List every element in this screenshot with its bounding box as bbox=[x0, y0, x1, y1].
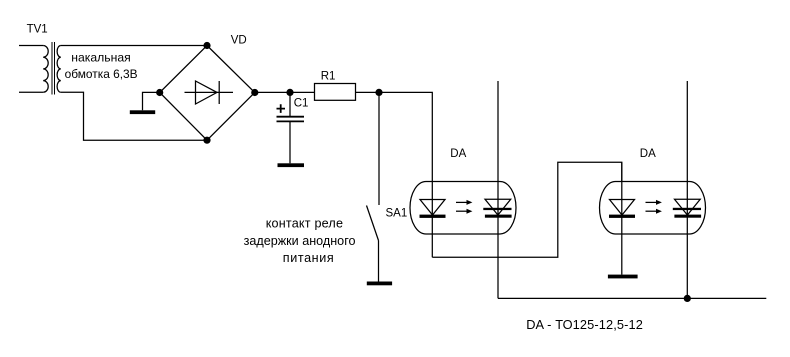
svg-text:DA: DA bbox=[640, 148, 656, 160]
svg-text:задержки анодного: задержки анодного bbox=[244, 234, 356, 248]
junction cathode bus bbox=[684, 295, 691, 302]
wire primary top bbox=[19, 45, 43, 47]
ground SA1 bbox=[367, 282, 392, 286]
switch SA1 bbox=[367, 92, 380, 281]
svg-text:накальная: накальная bbox=[71, 51, 130, 65]
optocoupler DA1 bbox=[410, 81, 516, 298]
junction bridge top bbox=[203, 42, 210, 49]
wire DA1 LED cathode to DA2 LED anode bbox=[432, 162, 622, 257]
ground bridge bbox=[130, 110, 155, 114]
svg-text:C1: C1 bbox=[294, 97, 309, 109]
bridge rectifier VD bbox=[160, 46, 255, 141]
wire bridge output to C1 node bbox=[255, 91, 290, 93]
svg-text:SA1: SA1 bbox=[386, 207, 408, 219]
junction bridge left bbox=[156, 89, 163, 96]
transformer TV1 bbox=[43, 42, 61, 95]
wire primary bottom bbox=[19, 91, 43, 93]
svg-text:обмотка 6,3В: обмотка 6,3В bbox=[65, 67, 138, 81]
wire secondary bottom to bridge bbox=[61, 92, 207, 140]
junction C1 node bbox=[286, 89, 293, 96]
optocoupler DA2 bbox=[600, 81, 706, 298]
wire R1 to node bbox=[356, 91, 380, 93]
wire node to DA1 LED anode bbox=[379, 92, 432, 182]
svg-text:DA - ТО125-12,5-12: DA - ТО125-12,5-12 bbox=[526, 317, 643, 332]
wire secondary top to bridge bbox=[61, 45, 207, 47]
wire cathode bus bbox=[498, 297, 766, 299]
junction bridge bottom bbox=[203, 137, 210, 144]
resistor R1 bbox=[315, 84, 356, 101]
svg-text:питания: питания bbox=[283, 251, 335, 265]
svg-text:контакт реле: контакт реле bbox=[266, 216, 344, 230]
ground C1 bbox=[278, 163, 305, 167]
svg-text:DA: DA bbox=[450, 148, 466, 160]
wire C1 node to R1 bbox=[290, 91, 315, 93]
capacitor C1 bbox=[277, 92, 305, 163]
junction SA1 node bbox=[375, 89, 382, 96]
svg-text:VD: VD bbox=[231, 35, 247, 47]
junction bridge right bbox=[251, 89, 258, 96]
svg-text:R1: R1 bbox=[321, 71, 336, 83]
wire bridge left to ground bbox=[143, 92, 160, 110]
svg-text:TV1: TV1 bbox=[27, 24, 48, 36]
ground DA2 LED bbox=[608, 275, 638, 279]
